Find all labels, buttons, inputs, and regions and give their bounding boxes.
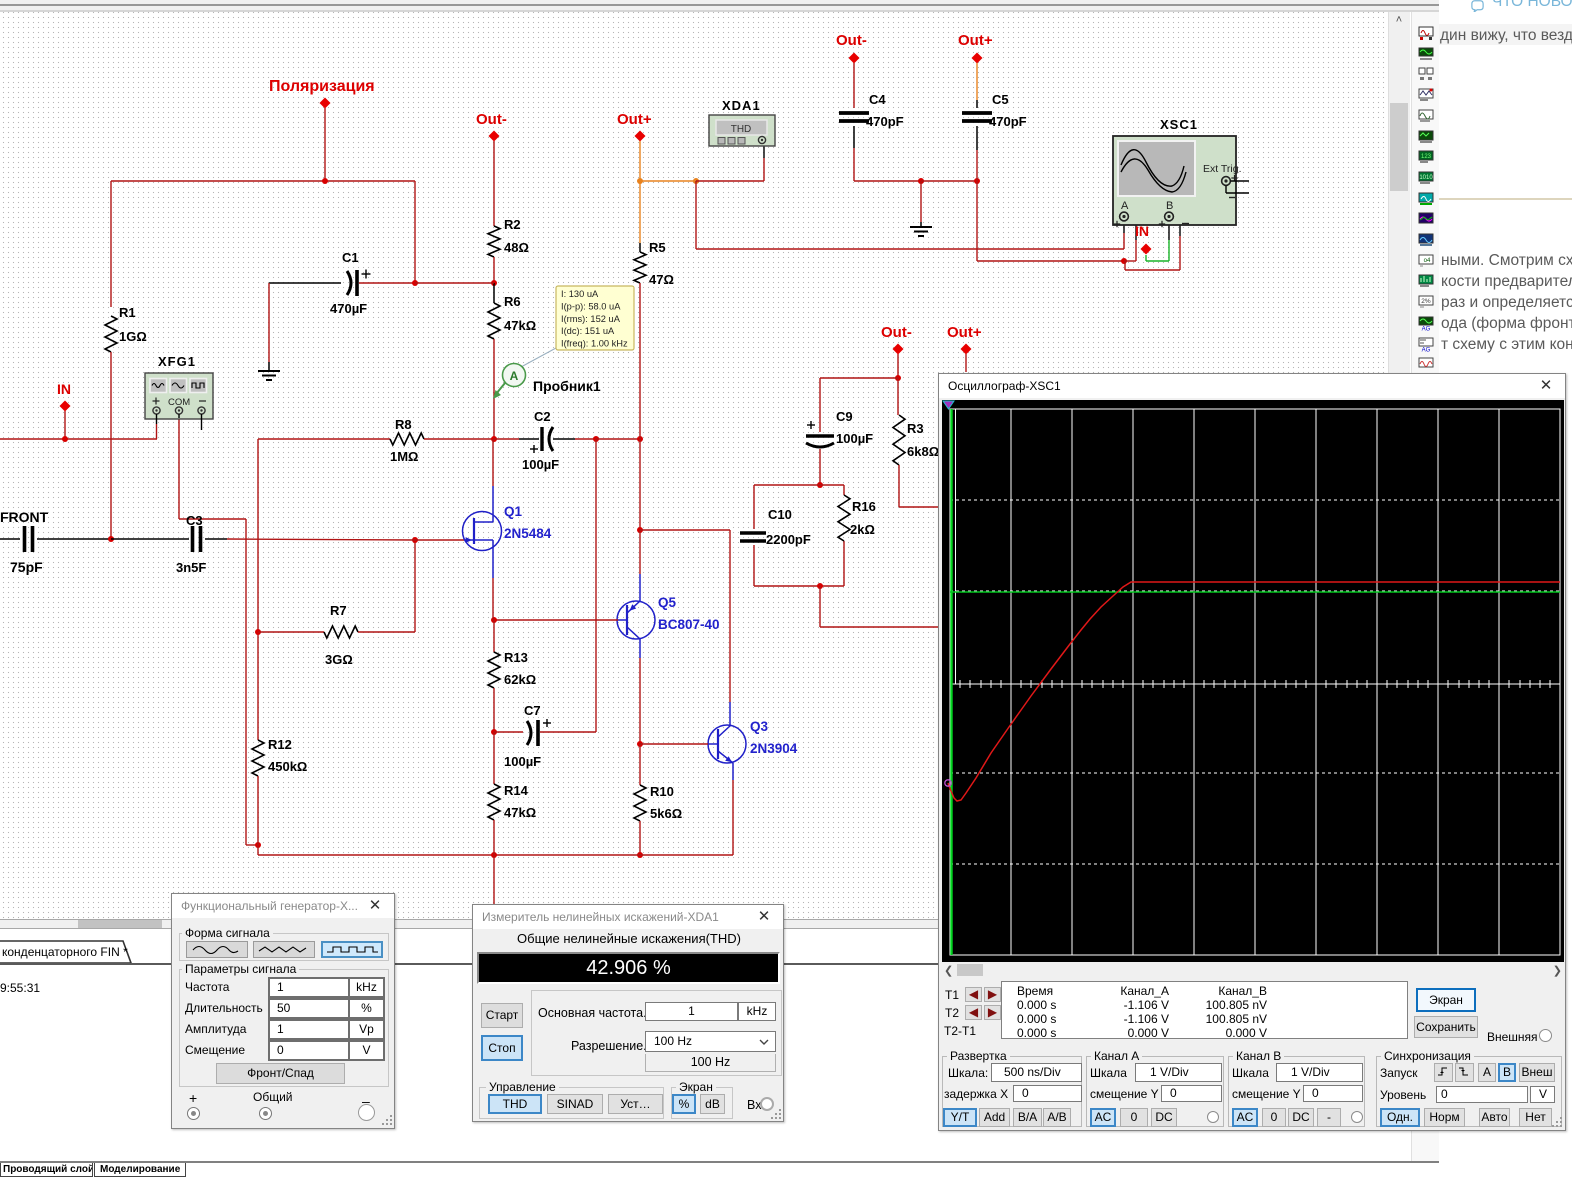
svg-text:Q1: Q1	[504, 504, 523, 519]
svg-text:100µF: 100µF	[504, 754, 541, 769]
svg-text:I(rms): 152 uA: I(rms): 152 uA	[561, 314, 621, 324]
svg-text:FRONT: FRONT	[0, 509, 49, 525]
svg-text:R12: R12	[268, 737, 292, 752]
svg-text:R6: R6	[504, 294, 521, 309]
svg-text:C4: C4	[869, 92, 886, 107]
svg-text:R16: R16	[852, 499, 876, 514]
svg-text:R10: R10	[650, 784, 674, 799]
svg-text:IN: IN	[57, 381, 71, 397]
svg-text:Out+: Out+	[958, 32, 993, 49]
svg-text:Out-: Out-	[476, 111, 507, 128]
svg-text:Поляризация: Поляризация	[269, 78, 375, 95]
svg-text:48Ω: 48Ω	[504, 240, 529, 255]
svg-text:100µF: 100µF	[522, 457, 559, 472]
svg-text:C3: C3	[186, 513, 203, 528]
svg-text:C2: C2	[534, 409, 551, 424]
svg-text:3n5F: 3n5F	[176, 560, 206, 575]
svg-text:5k6Ω: 5k6Ω	[650, 806, 682, 821]
svg-text:1MΩ: 1MΩ	[390, 449, 418, 464]
svg-text:R1: R1	[119, 305, 136, 320]
svg-text:470pF: 470pF	[989, 114, 1027, 129]
svg-text:450kΩ: 450kΩ	[268, 759, 307, 774]
svg-text:A: A	[1121, 200, 1129, 212]
svg-text:C7: C7	[524, 703, 541, 718]
svg-text:I(p-p): 58.0 uA: I(p-p): 58.0 uA	[561, 301, 621, 311]
svg-text:2%: 2%	[1421, 298, 1431, 305]
svg-text:Out-: Out-	[836, 32, 867, 49]
svg-text:Q3: Q3	[750, 719, 769, 734]
svg-text:47kΩ: 47kΩ	[504, 318, 536, 333]
svg-text:470µF: 470µF	[330, 301, 367, 316]
svg-text:I: 130 uA: I: 130 uA	[561, 289, 599, 299]
svg-text:100µF: 100µF	[836, 431, 873, 446]
svg-text:o4: o4	[1424, 258, 1431, 264]
svg-text:Ext Trig.: Ext Trig.	[1203, 163, 1242, 175]
svg-text:XFG1: XFG1	[158, 354, 196, 369]
svg-text:R5: R5	[649, 240, 666, 255]
svg-text:R7: R7	[330, 603, 347, 618]
svg-text:XSC1: XSC1	[1160, 117, 1198, 132]
svg-text:C10: C10	[768, 507, 792, 522]
svg-text:THD: THD	[731, 124, 752, 135]
svg-text:R13: R13	[504, 650, 528, 665]
svg-text:AG: AG	[1422, 326, 1431, 331]
svg-text:2kΩ: 2kΩ	[850, 522, 875, 537]
svg-text:B: B	[1166, 200, 1173, 212]
svg-text:Q5: Q5	[658, 595, 677, 610]
svg-text:47kΩ: 47kΩ	[504, 805, 536, 820]
svg-text:R3: R3	[907, 421, 924, 436]
svg-text:2N3904: 2N3904	[750, 741, 798, 756]
svg-text:1010: 1010	[1419, 175, 1433, 181]
svg-text:C5: C5	[992, 92, 1009, 107]
svg-text:75pF: 75pF	[10, 559, 43, 575]
svg-text:C1: C1	[342, 250, 359, 265]
svg-text:C9: C9	[836, 409, 853, 424]
svg-text:BC807-40: BC807-40	[658, 617, 720, 632]
svg-text:A: A	[510, 369, 519, 383]
svg-text:R8: R8	[395, 417, 412, 432]
svg-text:2N5484: 2N5484	[504, 526, 552, 541]
svg-text:R2: R2	[504, 217, 521, 232]
svg-text:2200pF: 2200pF	[766, 532, 811, 547]
svg-text:3GΩ: 3GΩ	[325, 652, 353, 667]
svg-text:1GΩ: 1GΩ	[119, 329, 147, 344]
svg-text:Out+: Out+	[947, 324, 982, 341]
svg-text:6k8Ω: 6k8Ω	[907, 444, 939, 459]
svg-text:Out-: Out-	[881, 324, 912, 341]
svg-text:I(freq): 1.00 kHz: I(freq): 1.00 kHz	[561, 339, 628, 349]
svg-text:I(dc): 151 uA: I(dc): 151 uA	[561, 326, 615, 336]
svg-text:R14: R14	[504, 783, 529, 798]
svg-text:AG: AG	[1422, 347, 1431, 352]
svg-text:Пробник1: Пробник1	[533, 378, 601, 394]
svg-text:62kΩ: 62kΩ	[504, 672, 536, 687]
svg-text:Out+: Out+	[617, 111, 652, 128]
svg-text:XDA1: XDA1	[722, 98, 761, 113]
svg-text:47Ω: 47Ω	[649, 272, 674, 287]
svg-text:123: 123	[1421, 154, 1432, 160]
svg-text:470pF: 470pF	[866, 114, 904, 129]
